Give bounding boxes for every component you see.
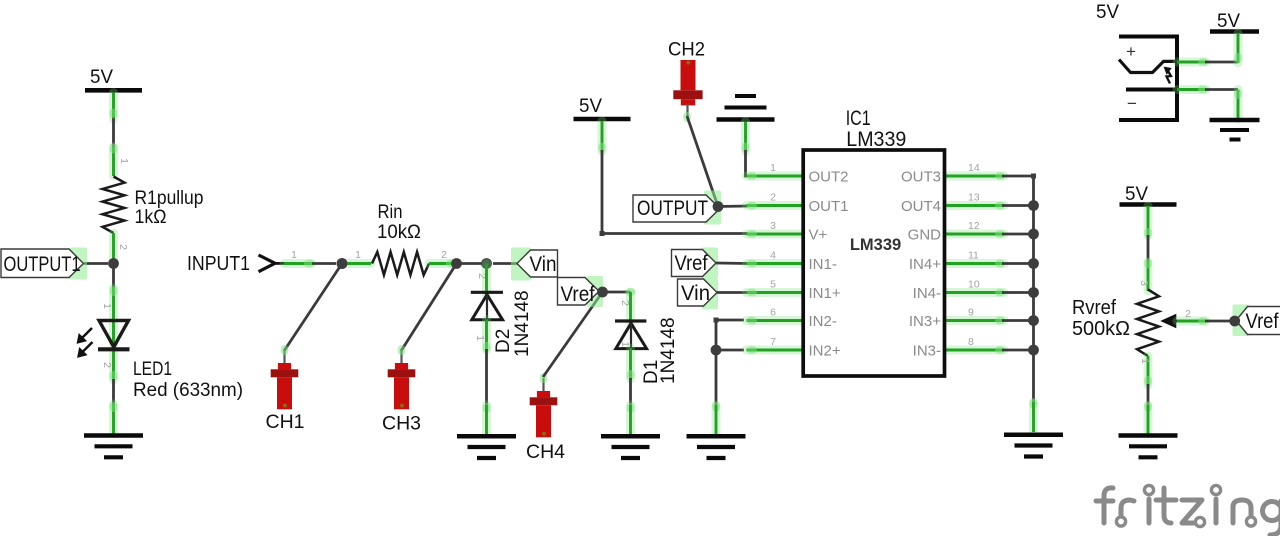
svg-text:5V: 5V <box>1096 2 1119 23</box>
svg-text:OUTPUT: OUTPUT <box>637 197 708 220</box>
svg-text:6: 6 <box>770 307 776 319</box>
svg-text:1: 1 <box>355 249 361 261</box>
svg-text:10kΩ: 10kΩ <box>377 222 421 243</box>
svg-text:GND: GND <box>908 227 942 244</box>
svg-text:500kΩ: 500kΩ <box>1072 318 1130 340</box>
svg-text:OUT3: OUT3 <box>901 169 941 186</box>
svg-text:V+: V+ <box>809 227 828 244</box>
svg-text:5V: 5V <box>1125 184 1148 205</box>
svg-text:Vref: Vref <box>675 252 708 275</box>
svg-text:CH3: CH3 <box>382 413 421 435</box>
svg-text:1N4148: 1N4148 <box>512 290 533 357</box>
svg-text:Vref: Vref <box>561 283 595 306</box>
svg-text:2: 2 <box>101 362 113 368</box>
svg-text:LED1: LED1 <box>133 359 172 380</box>
svg-text:5: 5 <box>770 279 776 291</box>
svg-text:1N4148: 1N4148 <box>658 317 679 384</box>
svg-text:5V: 5V <box>90 67 113 88</box>
svg-text:1: 1 <box>474 335 486 341</box>
svg-text:1: 1 <box>118 158 130 164</box>
svg-text:IN4+: IN4+ <box>909 256 941 273</box>
svg-text:1: 1 <box>770 162 776 174</box>
svg-text:Vin: Vin <box>530 253 557 276</box>
svg-text:IN2-: IN2- <box>809 313 837 330</box>
svg-text:Rvref: Rvref <box>1072 297 1116 319</box>
svg-text:13: 13 <box>968 192 980 204</box>
svg-text:IN1+: IN1+ <box>809 285 841 302</box>
svg-text:IN2+: IN2+ <box>809 343 841 360</box>
svg-text:11: 11 <box>968 250 979 262</box>
svg-text:OUT2: OUT2 <box>809 169 849 186</box>
svg-text:1kΩ: 1kΩ <box>135 207 167 228</box>
svg-text:IN3-: IN3- <box>913 343 941 360</box>
svg-text:5V: 5V <box>579 96 602 117</box>
svg-text:IC1: IC1 <box>846 107 871 130</box>
svg-text:2: 2 <box>1185 308 1191 320</box>
svg-text:−: − <box>1127 94 1137 113</box>
svg-text:1: 1 <box>1139 358 1151 364</box>
svg-text:OUT1: OUT1 <box>809 198 849 215</box>
svg-text:14: 14 <box>968 162 980 174</box>
svg-text:7: 7 <box>770 336 776 348</box>
svg-text:8: 8 <box>968 336 974 348</box>
svg-text:OUT4: OUT4 <box>901 198 941 215</box>
svg-text:Vref: Vref <box>1246 310 1279 333</box>
svg-text:2: 2 <box>770 192 776 204</box>
svg-text:3: 3 <box>1138 280 1150 286</box>
svg-text:LM339: LM339 <box>850 236 901 254</box>
svg-text:2: 2 <box>117 244 129 250</box>
svg-text:INPUT1: INPUT1 <box>187 253 250 275</box>
svg-text:D2: D2 <box>493 329 514 353</box>
svg-text:IN1-: IN1- <box>809 256 837 273</box>
svg-text:Rin: Rin <box>378 202 403 223</box>
svg-text:3: 3 <box>770 220 776 232</box>
svg-text:1: 1 <box>101 303 113 309</box>
svg-text:1: 1 <box>619 341 631 347</box>
svg-text:9: 9 <box>968 307 974 319</box>
svg-text:10: 10 <box>968 279 980 291</box>
svg-text:Red (633nm): Red (633nm) <box>133 380 243 401</box>
svg-text:4: 4 <box>770 250 776 262</box>
svg-text:2: 2 <box>441 249 447 261</box>
svg-text:IN3+: IN3+ <box>909 313 941 330</box>
svg-text:12: 12 <box>968 220 980 232</box>
svg-text:Vin: Vin <box>681 282 710 305</box>
svg-text:LM339: LM339 <box>846 128 906 151</box>
svg-text:+: + <box>1126 42 1136 61</box>
svg-text:1: 1 <box>291 249 297 261</box>
svg-text:CH1: CH1 <box>266 411 305 433</box>
svg-text:IN4-: IN4- <box>913 285 941 302</box>
svg-text:OUTPUT1: OUTPUT1 <box>4 253 81 276</box>
svg-text:CH2: CH2 <box>668 39 705 61</box>
svg-text:R1pullup: R1pullup <box>135 188 204 209</box>
svg-text:CH4: CH4 <box>526 441 565 463</box>
